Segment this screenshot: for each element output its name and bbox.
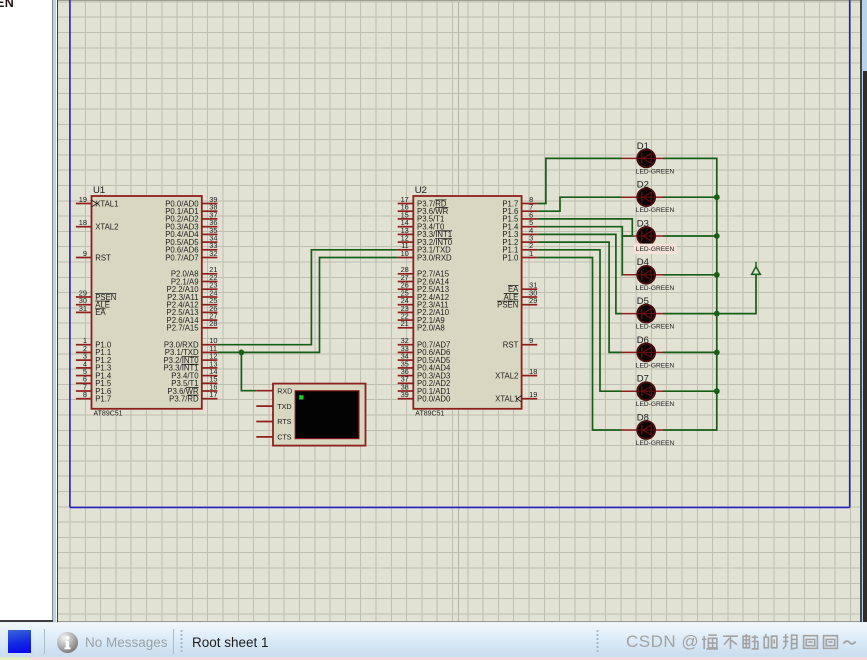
LED D2 <box>621 188 663 206</box>
svg-text:P2.7/A15: P2.7/A15 <box>167 324 200 333</box>
svg-text:AT89C51: AT89C51 <box>94 411 123 418</box>
svg-text:RST: RST <box>503 341 519 350</box>
svg-text:29: 29 <box>529 296 537 305</box>
junction <box>714 311 720 317</box>
svg-text:PSEN: PSEN <box>497 301 518 310</box>
LED D8 <box>621 421 663 439</box>
canvas top darker edge <box>58 0 860 1</box>
wire LED row to bus <box>663 274 717 276</box>
svg-text:LED-GREEN: LED-GREEN <box>636 285 675 292</box>
svg-text:32: 32 <box>209 249 217 258</box>
svg-text:LED-GREEN: LED-GREEN <box>636 168 675 175</box>
svg-text:LED-GREEN: LED-GREEN <box>636 207 675 214</box>
right dark window edge <box>863 71 867 622</box>
left panel bottom border <box>0 620 53 622</box>
darker major grid line <box>458 0 459 622</box>
wire U2 P1.7 to D1 <box>537 158 621 203</box>
wire LED row to bus <box>663 390 717 392</box>
sheet border right <box>849 0 851 507</box>
svg-text:RST: RST <box>95 253 111 262</box>
wire U2 P1.6 to D2 <box>537 197 621 211</box>
junction <box>714 388 720 394</box>
svg-text:LED-GREEN: LED-GREEN <box>636 362 675 369</box>
svg-text:17: 17 <box>209 390 217 399</box>
svg-text:RXD: RXD <box>277 386 292 395</box>
svg-text:D1: D1 <box>637 141 649 152</box>
svg-text:8: 8 <box>83 390 87 399</box>
wire LED row to bus <box>663 313 717 315</box>
bottom strip <box>0 657 867 660</box>
right edge: canvas edge line <box>860 0 862 622</box>
wire LED row to bus <box>663 235 717 237</box>
svg-text:U2: U2 <box>415 185 427 196</box>
left panel <box>0 0 52 622</box>
LED D4 <box>621 266 663 284</box>
svg-text:RTS: RTS <box>277 417 291 426</box>
svg-text:P3.0/RXD: P3.0/RXD <box>417 253 452 262</box>
IC U2 AT89C51 <box>398 185 538 418</box>
info icon <box>57 632 78 653</box>
svg-text:CTS: CTS <box>277 433 292 442</box>
svg-text:9: 9 <box>529 336 533 345</box>
junction <box>714 194 720 200</box>
left panel partial text <box>0 0 14 10</box>
wire LED anode bus <box>663 158 717 430</box>
dotted handle <box>180 629 183 654</box>
no messages text <box>85 635 168 650</box>
svg-text:P3.7/RD: P3.7/RD <box>169 395 199 404</box>
D3 value highlight <box>634 244 677 254</box>
junction <box>714 272 720 278</box>
wire U1 P3.0/RXD to U2 P3.1/TXD <box>217 250 397 345</box>
svg-text:D2: D2 <box>637 180 649 191</box>
junction on TXD wire <box>239 350 245 356</box>
svg-text:18: 18 <box>529 367 537 376</box>
wire U2 P1.3 to D5 <box>537 234 621 313</box>
svg-text:LED-GREEN: LED-GREEN <box>636 246 675 253</box>
wire U1 P3.1/TXD to U2 P3.0/RXD <box>217 258 397 353</box>
LED D3 <box>621 227 663 245</box>
sheet border bottom <box>70 506 850 508</box>
wire LED row to bus <box>663 351 717 353</box>
left blue strip <box>53 0 57 622</box>
left panel border <box>52 0 53 622</box>
wire U2 P1.5 to D3 <box>537 219 632 236</box>
svg-text:LED-GREEN: LED-GREEN <box>636 440 675 447</box>
svg-text:28: 28 <box>209 319 217 328</box>
svg-text:10: 10 <box>401 249 409 258</box>
status bar <box>0 622 867 658</box>
wire U2 P1.2 to D6 <box>537 242 621 352</box>
svg-text:19: 19 <box>79 195 87 204</box>
svg-text:39: 39 <box>401 390 409 399</box>
svg-text:1: 1 <box>529 249 533 258</box>
svg-text:31: 31 <box>79 304 87 313</box>
separator <box>44 629 45 654</box>
canvas left edge <box>57 0 59 622</box>
svg-text:9: 9 <box>83 249 87 258</box>
right blue strip <box>862 0 867 622</box>
svg-text:19: 19 <box>529 390 537 399</box>
svg-text:LED-GREEN: LED-GREEN <box>636 401 675 408</box>
svg-text:P0.7/AD7: P0.7/AD7 <box>165 253 198 262</box>
svg-text:21: 21 <box>401 319 409 328</box>
power symbol <box>752 262 761 275</box>
virtual terminal <box>256 384 365 446</box>
wire TXD branch to terminal RXD <box>241 352 256 390</box>
svg-text:AT89C51: AT89C51 <box>415 411 444 418</box>
LED D6 <box>621 344 663 362</box>
svg-text:XTAL2: XTAL2 <box>95 223 118 232</box>
svg-text:D8: D8 <box>637 412 649 423</box>
svg-text:LED-GREEN: LED-GREEN <box>636 324 675 331</box>
status blue square <box>8 630 32 654</box>
canvas bottom edge line <box>58 621 860 622</box>
csdn watermark <box>626 631 866 653</box>
wire LED row to bus <box>663 196 717 198</box>
IC U1 AT89C51 <box>76 185 218 418</box>
svg-text:P0.0/AD0: P0.0/AD0 <box>417 395 451 404</box>
wire U2 P1.1 to D7 <box>537 250 621 391</box>
junction <box>714 233 720 239</box>
wire power to bus <box>717 274 756 313</box>
svg-text:U1: U1 <box>93 185 105 196</box>
svg-text:EA: EA <box>95 308 106 317</box>
svg-text:XTAL2: XTAL2 <box>495 371 518 380</box>
svg-text:D7: D7 <box>637 374 649 385</box>
LED D5 <box>621 305 663 323</box>
LED D1 <box>621 150 663 168</box>
svg-text:TXD: TXD <box>277 402 291 411</box>
svg-text:D3: D3 <box>637 218 649 229</box>
sheet border left <box>69 0 71 507</box>
svg-text:D4: D4 <box>637 257 649 268</box>
LED D7 <box>621 382 663 400</box>
wire U2 P1.0 to D8 <box>537 258 621 431</box>
junction <box>714 350 720 356</box>
svg-text:18: 18 <box>79 218 87 227</box>
svg-text:P2.0/A8: P2.0/A8 <box>417 324 445 333</box>
wire U2 P1.4 to D4 <box>537 227 622 275</box>
svg-text:P1.7: P1.7 <box>95 395 111 404</box>
svg-text:D6: D6 <box>637 335 649 346</box>
svg-text:P1.0: P1.0 <box>502 253 519 262</box>
svg-text:XTAL1: XTAL1 <box>95 199 118 208</box>
svg-text:D5: D5 <box>637 296 649 307</box>
separator <box>173 629 174 654</box>
dotted handle 2 <box>596 629 599 654</box>
root sheet text <box>192 635 269 650</box>
svg-text:XTAL1: XTAL1 <box>495 395 518 404</box>
